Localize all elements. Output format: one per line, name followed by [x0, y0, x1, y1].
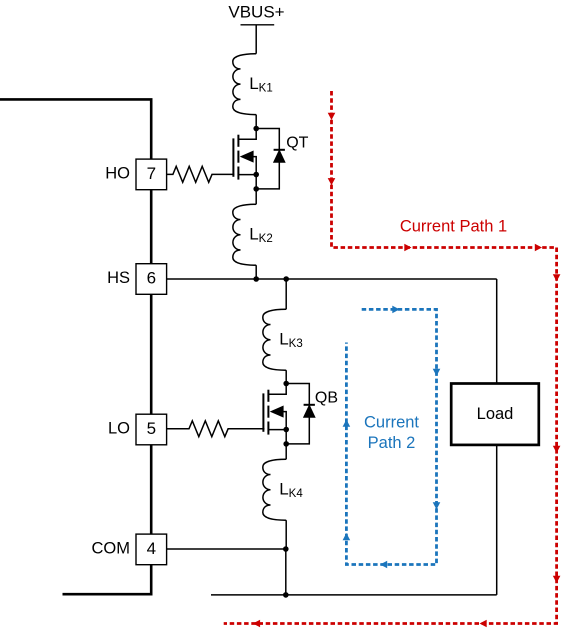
- node QT drain: [253, 126, 259, 132]
- svg-text:LK2: LK2: [249, 225, 273, 245]
- inductor LK3: [263, 309, 286, 370]
- node HS-LK3: [283, 276, 289, 282]
- node QT source diode junction: [253, 186, 259, 192]
- svg-text:COM: COM: [92, 539, 131, 557]
- body diode QB branch: [286, 384, 309, 444]
- svg-text:Load: Load: [477, 405, 514, 423]
- wire bottom rail: [211, 594, 497, 596]
- svg-text:HS: HS: [107, 269, 130, 287]
- wire QT source to LK2: [255, 189, 257, 204]
- body diode QT anode triangle: [274, 150, 285, 162]
- wire LK1 to QT drain node: [255, 115, 257, 129]
- current path 2 arrow up e: [343, 420, 351, 427]
- svg-text:5: 5: [147, 419, 156, 438]
- resistor R-HO gate resistor high side: [166, 166, 234, 182]
- svg-text:HO: HO: [105, 164, 130, 182]
- current path 1 arrow left i: [253, 620, 260, 628]
- svg-text:LO: LO: [108, 420, 130, 438]
- wire VBUS+ to LK1: [255, 25, 257, 54]
- wire LK3 to QB drain: [285, 370, 287, 383]
- inductor LK2: [233, 204, 256, 265]
- wire LK4 to COM node: [285, 520, 287, 549]
- transistor QB: [263, 384, 286, 435]
- current path 2 arrow up f: [343, 533, 351, 540]
- inductor LK1: [233, 54, 256, 115]
- wire COM node to bottom rail: [285, 549, 287, 595]
- svg-text:QB: QB: [315, 390, 338, 407]
- svg-text:LK1: LK1: [249, 74, 273, 94]
- current path 2 arrow left d: [380, 561, 387, 569]
- node QB drain: [283, 381, 289, 387]
- svg-text:Current: Current: [364, 414, 419, 432]
- body diode QB cathode bar: [304, 404, 315, 406]
- VBUS+ terminal bar: [241, 24, 275, 26]
- pin box 4: [136, 534, 167, 565]
- current path 1 arrow right d: [535, 244, 542, 252]
- current path 1 red dashed route: [224, 91, 557, 624]
- pin box 7: [136, 159, 167, 190]
- current path 1 arrow down a: [328, 113, 336, 120]
- svg-text:VBUS+: VBUS+: [228, 3, 284, 22]
- node HS-LK2: [253, 276, 259, 282]
- current path 2 blue dashed route: [346, 309, 436, 564]
- svg-text:Path 2: Path 2: [368, 434, 416, 452]
- body diode QT branch: [256, 129, 279, 189]
- inductor LK4: [263, 459, 286, 520]
- wire HS rail: [167, 278, 497, 280]
- thick input bus: [0, 99, 151, 594]
- resistor R-LO gate resistor low side: [167, 421, 265, 437]
- wire HS rail to Load top: [496, 279, 498, 384]
- current path 1 arrow right c: [404, 244, 411, 252]
- body diode QT cathode bar: [274, 149, 285, 151]
- node QB source body junction: [283, 427, 289, 433]
- svg-text:LK4: LK4: [279, 480, 303, 500]
- svg-text:4: 4: [147, 539, 156, 558]
- wire HS to LK3: [285, 279, 287, 309]
- current path 1 arrow down f: [553, 446, 561, 453]
- pin box 6: [136, 264, 167, 295]
- svg-text:LK3: LK3: [279, 330, 303, 350]
- body diode QB anode triangle: [304, 405, 315, 417]
- node COM-LK4: [283, 546, 289, 552]
- svg-text:7: 7: [147, 164, 156, 183]
- svg-text:6: 6: [147, 269, 156, 288]
- svg-text:QT: QT: [286, 135, 308, 152]
- current path 1 arrow down g: [553, 576, 561, 583]
- current path 2 arrow down c: [433, 502, 441, 509]
- load box: [451, 384, 539, 445]
- node bottom rail junction: [283, 592, 289, 598]
- current path 1 arrow left h: [480, 620, 487, 628]
- svg-text:Current Path 1: Current Path 1: [400, 217, 507, 235]
- wire QB source to LK4: [285, 444, 287, 459]
- current path 2 arrow down b: [433, 369, 441, 376]
- pin box 5: [136, 414, 167, 445]
- wire COM rail: [167, 548, 286, 550]
- wire LK2 to HS node: [255, 265, 257, 279]
- current path 2 arrow right a: [392, 306, 399, 314]
- wire QT source junctions: [255, 175, 257, 189]
- wire Load bottom to bottom rail: [496, 445, 498, 595]
- current path 1 arrow down b: [328, 178, 336, 185]
- wire QB source junctions: [285, 430, 287, 444]
- node QT source body junction: [253, 172, 259, 178]
- node QB source diode junction: [283, 441, 289, 447]
- current path 1 arrow down e: [553, 274, 561, 281]
- transistor QT: [233, 129, 256, 180]
